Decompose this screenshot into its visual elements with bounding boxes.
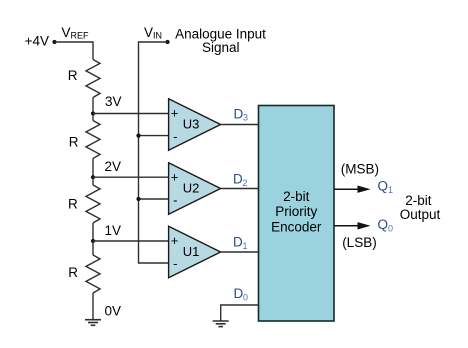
label Q0 xyxy=(378,217,394,234)
svg-text:2V: 2V xyxy=(105,159,122,174)
svg-text:1V: 1V xyxy=(105,223,122,238)
label VIN xyxy=(144,25,162,41)
wire node 3V to R2 and R2 to node 2V xyxy=(92,114,94,178)
wire VIN to U3 minus input xyxy=(139,135,169,137)
op-amp U1 xyxy=(169,226,221,277)
svg-text:R: R xyxy=(68,68,78,83)
svg-text:R: R xyxy=(69,134,79,149)
label Analogue Input Signal xyxy=(175,27,266,56)
svg-text:+: + xyxy=(171,106,179,121)
svg-text:3: 3 xyxy=(243,113,248,123)
svg-text:3V: 3V xyxy=(105,94,122,109)
label 0V xyxy=(105,304,122,319)
svg-text:REF: REF xyxy=(71,31,90,41)
svg-text:-: - xyxy=(173,256,177,271)
node junction VIN-U2 dot xyxy=(136,197,140,201)
label D3 xyxy=(234,107,249,123)
svg-text:1: 1 xyxy=(243,241,248,251)
wire U1 output D1 xyxy=(221,251,259,253)
wire node 1V to R4 and R4 to ground xyxy=(92,241,94,320)
svg-text:R: R xyxy=(68,197,78,212)
label 2-bit Output xyxy=(400,193,441,222)
svg-text:(MSB): (MSB) xyxy=(341,162,379,177)
wire U2 output D2 xyxy=(221,188,259,190)
svg-text:IN: IN xyxy=(153,31,162,41)
label Q1 xyxy=(378,178,394,195)
svg-text:D: D xyxy=(233,234,243,249)
svg-text:-: - xyxy=(173,193,177,208)
label R2 xyxy=(69,134,79,149)
wire VIN vertical xyxy=(139,42,169,263)
svg-text:0: 0 xyxy=(243,293,248,303)
node 3V dot xyxy=(91,111,95,115)
wire node 2V to U2 plus input xyxy=(93,176,169,178)
node 2V dot xyxy=(91,175,95,179)
encoder U4 2-bit priority encoder xyxy=(259,106,335,322)
svg-text:U1: U1 xyxy=(183,244,200,259)
wire Q1 output arrow xyxy=(334,186,371,193)
svg-text:Q: Q xyxy=(378,217,389,232)
svg-text:D: D xyxy=(233,171,243,186)
label R3 xyxy=(68,197,78,212)
svg-text:0V: 0V xyxy=(105,304,122,319)
label (MSB) xyxy=(341,162,379,177)
svg-text:R: R xyxy=(68,265,78,280)
resistor R1 xyxy=(86,60,100,98)
svg-text:Output: Output xyxy=(400,207,441,222)
label 2V xyxy=(105,159,122,174)
node VREF dot xyxy=(52,40,56,44)
wire U3 output D3 xyxy=(221,124,259,126)
ground ladder xyxy=(85,320,101,326)
svg-text:+: + xyxy=(171,169,179,184)
svg-text:V: V xyxy=(62,25,71,40)
op-amp U2 xyxy=(169,163,221,214)
wire node 3V to U3 plus input xyxy=(93,113,169,115)
svg-text:Signal: Signal xyxy=(202,40,240,55)
wire VREF to ladder top xyxy=(55,42,94,60)
label +4V xyxy=(25,34,49,49)
svg-text:2-bit: 2-bit xyxy=(283,189,310,204)
svg-text:U3: U3 xyxy=(183,117,200,132)
label D2 xyxy=(233,171,248,188)
wire node 1V to U1 plus input xyxy=(93,240,169,242)
wire R1 to node 3V xyxy=(92,98,94,114)
label VREF xyxy=(62,25,90,41)
svg-text:Encoder: Encoder xyxy=(271,220,322,235)
svg-text:+: + xyxy=(171,233,179,248)
ground D0 xyxy=(213,321,229,327)
wire VIN to U2 minus input xyxy=(139,198,169,200)
svg-text:2-bit: 2-bit xyxy=(405,193,432,208)
svg-text:D: D xyxy=(234,107,244,122)
label R1 xyxy=(68,68,78,83)
label (LSB) xyxy=(342,235,377,250)
wire D0 from encoder to ground xyxy=(221,305,259,321)
resistor R3 xyxy=(86,185,100,223)
label 1V xyxy=(105,223,122,238)
svg-text:0: 0 xyxy=(388,223,393,233)
svg-text:Priority: Priority xyxy=(275,204,317,219)
op-amp U3 xyxy=(169,99,221,150)
svg-text:2: 2 xyxy=(243,178,248,188)
node 1V dot xyxy=(91,239,95,243)
resistor R2 xyxy=(86,121,100,159)
svg-text:(LSB): (LSB) xyxy=(342,235,377,250)
label D1 xyxy=(233,234,248,251)
svg-text:+4V: +4V xyxy=(25,34,49,49)
wire node 2V to R3 and R3 to node 1V xyxy=(92,177,94,241)
svg-text:1: 1 xyxy=(388,185,393,195)
svg-text:U2: U2 xyxy=(183,181,200,196)
node junction VIN-U3 dot xyxy=(136,134,140,138)
svg-text:V: V xyxy=(144,25,153,40)
svg-text:-: - xyxy=(173,129,177,144)
label D0 xyxy=(234,286,249,303)
svg-text:Q: Q xyxy=(378,178,389,193)
svg-text:D: D xyxy=(234,286,244,301)
label 3V xyxy=(105,94,122,109)
node VIN dot xyxy=(165,40,169,44)
label R4 xyxy=(68,265,78,280)
wire Q0 output arrow xyxy=(334,222,371,229)
resistor R4 xyxy=(86,255,100,293)
